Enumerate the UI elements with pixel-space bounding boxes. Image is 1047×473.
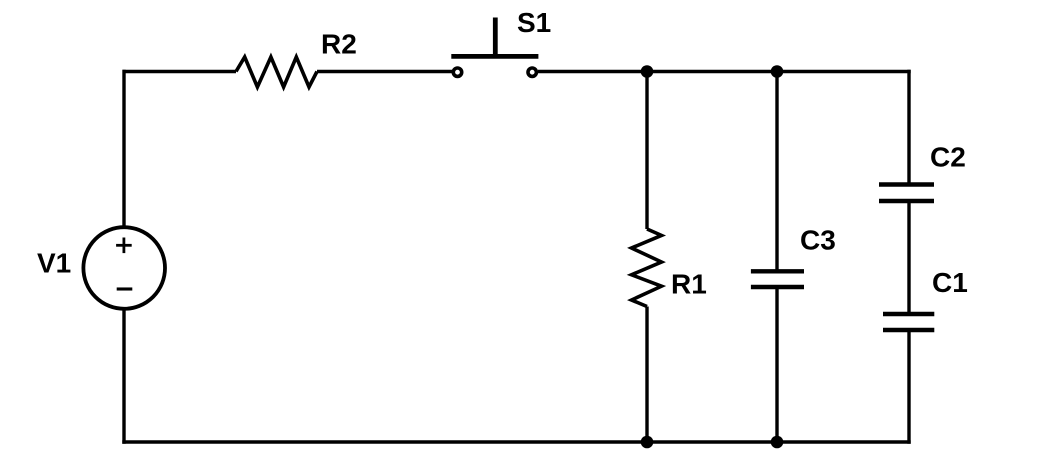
capacitor C3 bottom plate [751,285,804,289]
wire: bottom horizontal [122,440,910,443]
svg-text:V1: V1 [37,247,71,278]
capacitor C1 bottom plate [883,328,934,332]
svg-text:S1: S1 [517,7,551,38]
capacitor C2 top plate [879,182,934,186]
wire: switch to top-right corner [538,70,911,73]
switch S1 [451,18,538,77]
capacitor C2 [879,185,934,202]
wire: R2 to switch left contact [317,70,452,73]
wire: C3 branch top vertical [775,72,778,272]
wire: right branch between C2 and C1 [907,201,910,314]
voltage source V1 [83,227,165,309]
svg-text:C3: C3 [800,225,836,256]
resistor R2 [236,57,317,87]
voltage source V1 plus sign [116,244,132,247]
node: junction dot top at C3 branch [771,65,784,78]
svg-text:C2: C2 [930,141,966,172]
svg-text:C1: C1 [932,267,968,298]
capacitor C3 top plate [751,269,804,273]
wire: top-left horizontal from V1 branch to R2 [123,70,237,73]
svg-text:R2: R2 [321,29,357,60]
wire: C1 down to bottom wire [907,330,910,444]
capacitor C3 [751,271,804,287]
switch S1 right contact circle [528,68,536,76]
wire: right branch from top-right corner down to C2 [907,70,910,185]
voltage source V1 minus sign [117,287,133,290]
wire: C3 branch bottom vertical [775,287,778,442]
wire: R1 branch top vertical [645,72,648,230]
node: junction dot bottom at R1 branch [641,436,654,449]
capacitor C1 [883,314,934,330]
resistor R1 [632,229,662,307]
switch S1 left contact circle [453,68,461,76]
wire: left vertical from V1 down to bottom wire [122,309,125,444]
node: junction dot top at R1 branch [641,65,654,78]
svg-text:R1: R1 [671,269,707,300]
voltage source V1 circle [83,227,165,309]
wire: left vertical from top wire down to V1 [122,70,125,227]
node: junction dot bottom at C3 branch [771,436,784,449]
switch S1 stem [493,18,498,57]
switch S1 actuator bar [451,54,538,59]
capacitor C1 top plate [883,312,934,316]
capacitor C2 bottom plate [879,199,934,203]
wire: R1 branch bottom vertical [645,307,648,443]
